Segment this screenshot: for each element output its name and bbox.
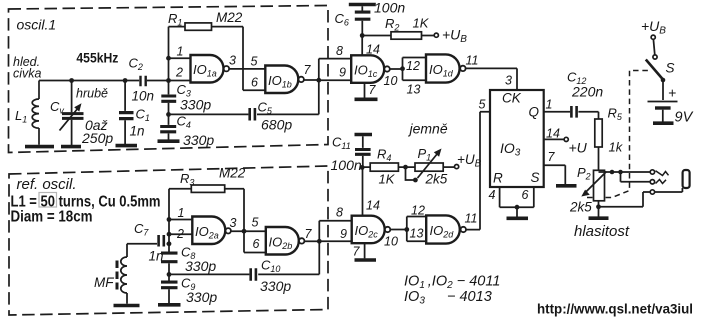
pin 5 label [251, 55, 258, 69]
pin 4 label [489, 188, 496, 202]
wire pin7 IO2c [364, 243, 366, 258]
svg-text:R3: R3 [180, 171, 194, 188]
svg-text:2: 2 [176, 227, 184, 241]
wire switch to battery [662, 80, 664, 100]
pin 10 label osc2 [384, 235, 398, 249]
wire pin14 IO3 [544, 138, 564, 140]
label L1 [15, 108, 27, 125]
terminal +UB osc2 [455, 165, 459, 169]
svg-text:+: + [668, 85, 676, 101]
label 1n C7 [149, 249, 164, 264]
svg-text:680p: 680p [261, 117, 292, 133]
svg-text:100n: 100n [331, 157, 362, 173]
svg-text:1K: 1K [413, 16, 430, 31]
label P2 [577, 165, 591, 182]
label C4 [177, 114, 191, 131]
resistor R3 [169, 185, 244, 253]
svg-text:1: 1 [546, 98, 553, 112]
jack contact 2 spring [656, 180, 667, 184]
svg-text:330p: 330p [260, 278, 291, 294]
ground under battery [653, 121, 674, 125]
label hled. civka [13, 55, 42, 81]
label IO2b [269, 235, 293, 252]
label oscil.1 [17, 17, 57, 33]
resistor R2 [362, 32, 434, 39]
label IO2d [430, 223, 455, 240]
pin 7 label IO1c [369, 83, 377, 97]
pin 10 label [384, 74, 398, 88]
label 330p C4 [183, 132, 214, 148]
svg-text:100n: 100n [374, 0, 405, 16]
label R3 [180, 171, 194, 188]
label C12 [567, 70, 586, 87]
resistor R4 [362, 163, 415, 171]
label hrube [76, 87, 108, 101]
node dot pin1 osc2 [167, 217, 172, 222]
capacitor C2 [141, 76, 146, 87]
svg-text:+UB: +UB [457, 152, 482, 170]
svg-text:13: 13 [407, 83, 421, 97]
svg-text:3: 3 [230, 216, 237, 230]
svg-text:R: R [493, 171, 503, 186]
P2 arrowhead [581, 190, 590, 197]
pin 8 label [336, 44, 343, 58]
label +UB osc2 [457, 152, 482, 170]
svg-text:+U: +U [569, 140, 588, 156]
label C3 [177, 82, 191, 99]
pin 8 label osc2 [336, 206, 343, 220]
wire Q out [544, 112, 599, 119]
svg-text:R1: R1 [168, 11, 182, 28]
label C6 [335, 11, 349, 28]
label +UB battery [641, 18, 666, 37]
label P1 [418, 146, 432, 163]
node dot jack branch 1 [610, 170, 615, 175]
pin 12 label osc2 [411, 204, 425, 218]
pin 2 label osc2 [176, 227, 184, 241]
label S [531, 170, 540, 185]
svg-text:6: 6 [522, 188, 529, 202]
label 680p [261, 117, 292, 133]
label IO1d [429, 62, 454, 79]
svg-text:11: 11 [465, 212, 478, 226]
terminal +UB osc1 [434, 33, 438, 37]
svg-text:P1: P1 [418, 146, 432, 163]
pin 14 label IO2c [366, 199, 380, 213]
label M22 [216, 10, 243, 25]
svg-text:2: 2 [175, 66, 183, 80]
label IO3 4013 [404, 289, 492, 307]
jack plug body [683, 170, 690, 188]
label 330p C3 [180, 97, 211, 113]
svg-text:M22: M22 [216, 10, 243, 25]
node dot R3 drop [242, 229, 247, 234]
svg-text:8: 8 [336, 44, 343, 58]
svg-text:14: 14 [366, 199, 380, 213]
svg-text:S: S [531, 170, 540, 185]
label R1 [168, 11, 182, 28]
label M22 R3 [219, 166, 246, 181]
wire pin7 IO3 [544, 165, 566, 184]
label C11 [332, 135, 351, 152]
capacitor C11 [355, 136, 371, 167]
label 1K R4 [379, 172, 396, 187]
P1 arrowhead [434, 149, 442, 157]
nand gate IO2a [192, 217, 231, 245]
label CK [502, 91, 522, 106]
jack contact 3 [650, 190, 654, 194]
svg-text:+UB: +UB [641, 18, 666, 37]
ground pin7 IO3 [556, 184, 577, 188]
pin 11 label [466, 54, 479, 68]
node dot C7 junction [167, 241, 172, 246]
label R2 [385, 16, 399, 33]
resistor R1 [169, 23, 244, 90]
svg-text:10n: 10n [132, 89, 155, 104]
svg-text:14: 14 [366, 43, 380, 57]
pin 7 label IO1b [304, 63, 312, 77]
nand gate IO1c [351, 55, 390, 83]
label 2k5 P1 [425, 172, 448, 187]
svg-text:Diam = 18cm: Diam = 18cm [11, 208, 93, 225]
svg-text:6: 6 [253, 237, 260, 251]
wire IO2b out [304, 240, 319, 242]
svg-text:10: 10 [384, 74, 398, 88]
node dot IO1d input [400, 66, 405, 71]
svg-text:12: 12 [406, 59, 420, 73]
svg-text:Cv: Cv [50, 99, 64, 116]
label IO2a [195, 224, 219, 241]
svg-text:12: 12 [411, 204, 425, 218]
label IO1a [193, 62, 217, 79]
ground bar above C11 [355, 133, 373, 137]
wire osc2 main node [127, 243, 169, 245]
svg-text:1K: 1K [379, 172, 396, 187]
label R5 [608, 106, 623, 123]
svg-text:7: 7 [548, 150, 556, 164]
pin 14 label IO1c [366, 43, 380, 57]
pin 1 label [546, 98, 553, 112]
pin 2 label [175, 66, 183, 80]
inductor L1 [32, 81, 39, 145]
wire pins 4 and 6 join [500, 187, 534, 217]
ground under C4 [158, 139, 180, 143]
pin 7 label IO3 [548, 150, 556, 164]
wire pin6 tie IO1b [243, 89, 265, 91]
label R4 [377, 147, 391, 164]
wire pin14 IO2c to supply [362, 167, 364, 215]
wire pin2 stub [169, 80, 191, 82]
jack contact 2 [650, 180, 654, 184]
label ref oscil [17, 176, 77, 193]
wire tied inputs 8 9 of IO2c [319, 221, 351, 242]
potentiometer P2 [586, 170, 607, 201]
wire IO1b out [304, 79, 319, 81]
pin 12 label [406, 59, 420, 73]
capacitor C4 [160, 127, 176, 132]
nand gate IO2d [426, 215, 466, 243]
pin 6 label [522, 188, 529, 202]
wire main node osc1 [39, 80, 169, 82]
label Diam spec [11, 208, 93, 225]
label Cv [50, 99, 64, 116]
wire pin7 IO1c [364, 83, 366, 98]
pin 5 label IO3 [479, 98, 486, 112]
pin 6 label [251, 76, 258, 90]
capacitor C8 [161, 253, 178, 262]
node dot switch bottom [661, 78, 666, 83]
wire pin6 tie IO2b [244, 252, 266, 254]
ground bar above C6 [349, 3, 376, 7]
label 1n [130, 124, 145, 139]
label 330p C8 [185, 258, 216, 274]
resistor R5 [595, 119, 602, 147]
ground IO2c [355, 258, 377, 262]
svg-text:C5: C5 [258, 100, 273, 117]
svg-text:jemně: jemně [408, 121, 448, 137]
svg-text:13: 13 [410, 227, 424, 241]
svg-text:C1: C1 [136, 107, 150, 124]
label IO3 [500, 140, 521, 159]
nand gate IO1a [191, 55, 230, 83]
svg-text:oscil.1: oscil.1 [17, 17, 57, 33]
label hlasitost [574, 223, 630, 240]
capacitor C5 [250, 108, 255, 121]
ref oscil dashed enclosure [9, 166, 328, 315]
svg-text:7: 7 [353, 245, 361, 259]
svg-text:hrubě: hrubě [76, 87, 108, 101]
node dot wiper [413, 178, 418, 183]
svg-text:+UB: +UB [442, 27, 467, 46]
label 0 az 250p [81, 117, 113, 146]
label L1 spec [11, 193, 161, 210]
svg-text:1: 1 [177, 45, 184, 59]
label C7 [134, 221, 149, 238]
pin 13 label [407, 83, 421, 97]
node dot pin2 osc1 [166, 78, 171, 83]
ground under L1 [25, 145, 54, 149]
label 2k5 P2 [569, 200, 592, 215]
svg-text:10: 10 [384, 235, 398, 249]
pin 14 label IO3 [546, 127, 560, 141]
wire R5 to P2 [598, 147, 600, 170]
label 1K R2 [413, 16, 430, 31]
node dot Cv tap [69, 78, 74, 83]
svg-text:civka: civka [13, 67, 42, 81]
nand gate IO1b [265, 66, 304, 94]
ground IO1c [355, 98, 378, 102]
svg-text:5: 5 [479, 98, 486, 112]
node dot P2 bottom [596, 204, 601, 209]
svg-text:330p: 330p [180, 97, 211, 113]
nand gate IO2b [266, 227, 305, 255]
svg-text:7: 7 [369, 83, 377, 97]
MF core bar [116, 261, 119, 290]
svg-text:MF: MF [94, 275, 114, 290]
label C10 [261, 258, 280, 275]
jack contact 1 [650, 170, 654, 174]
node dot C8-C9 junction [167, 272, 172, 277]
svg-text:9: 9 [339, 66, 346, 80]
svg-text:330p: 330p [183, 132, 214, 148]
label Q [529, 105, 540, 120]
wire IO2c out to IO2d [390, 229, 407, 231]
wire contact3 to P2 bottom [599, 192, 651, 207]
pin 3 label [229, 54, 236, 68]
svg-text:250p: 250p [81, 130, 113, 146]
oscil.1 dashed enclosure [9, 6, 329, 153]
label C8 [181, 245, 195, 262]
wire P2 bottom [598, 201, 600, 217]
node dot IO1b out [316, 78, 321, 83]
ground RS [507, 217, 529, 221]
svg-text:455kHz: 455kHz [76, 50, 118, 65]
pin 7 label IO2b [305, 227, 313, 241]
label url [537, 301, 693, 317]
label IO1c [354, 63, 378, 80]
svg-text:Q: Q [529, 105, 540, 120]
capacitor C1 [119, 81, 134, 146]
svg-text:C7: C7 [134, 221, 149, 238]
switch S lever [646, 60, 663, 80]
label 100n C6 [374, 0, 405, 16]
dashed mechanical link P2 to S [587, 71, 649, 198]
svg-text:L1: L1 [15, 108, 27, 125]
label battery plus [668, 85, 676, 101]
wire branch to middle contact [621, 172, 651, 182]
pin 9 label osc2 [340, 227, 347, 241]
label IO equivalents 4011 [404, 274, 500, 292]
switch S terminal [653, 55, 657, 59]
svg-text:M22: M22 [219, 166, 246, 181]
node dot pin1 osc1 [166, 56, 171, 61]
pin 3 label osc2 [230, 216, 237, 230]
svg-text:CK: CK [502, 91, 522, 106]
pin 7 label IO2c [353, 245, 361, 259]
wire IO1c out to IO1d [390, 68, 403, 70]
svg-text:C10: C10 [261, 258, 280, 275]
svg-text:P2: P2 [577, 165, 591, 182]
capacitor C10 [251, 268, 256, 281]
Cv arrowhead [74, 103, 81, 111]
wire C8C9 junction to C10 [169, 241, 319, 274]
node dot IO2b out [317, 239, 322, 244]
label IO2c [355, 223, 379, 240]
svg-text:8: 8 [336, 206, 343, 220]
pin 1 label osc2 [178, 206, 185, 220]
label 9V [675, 110, 694, 126]
svg-text:2k5: 2k5 [569, 200, 592, 215]
svg-text:C4: C4 [177, 114, 191, 131]
svg-text:330p: 330p [186, 289, 217, 305]
label 220n [571, 84, 603, 100]
svg-text:R5: R5 [608, 106, 623, 123]
svg-text:6: 6 [251, 76, 258, 90]
label 455kHz [76, 50, 118, 65]
wire P1 wiper [406, 167, 416, 180]
svg-text:C2: C2 [129, 56, 143, 73]
ground under C9 [158, 303, 181, 307]
svg-text:11: 11 [466, 54, 479, 68]
node dot IO2d input [404, 227, 409, 232]
wire contact3 to plug [655, 188, 683, 192]
ground under Cv [61, 145, 81, 149]
wire IO1d out to CK [466, 68, 517, 90]
label S [666, 61, 675, 76]
node dot jack branch 2 [618, 170, 623, 175]
svg-text:9: 9 [340, 227, 347, 241]
label C1 [136, 107, 150, 124]
wire P2 top to jack tip [599, 171, 651, 173]
label C9 [181, 276, 195, 293]
capacitor C7 [159, 235, 164, 247]
svg-text:S: S [666, 61, 675, 76]
capacitor C6 [355, 6, 371, 35]
pin 9 label [339, 66, 346, 80]
wire osc2 input vertical [168, 189, 170, 304]
wire IO1a out to IO1b [229, 68, 265, 70]
nand gate IO2c [352, 216, 391, 244]
node dot pin2 osc2 [167, 232, 172, 237]
wire pin2 stub osc2 [169, 233, 192, 235]
ground under C1 [116, 144, 138, 148]
label +UB osc1 [442, 27, 467, 46]
wire pin1 stub osc2 [169, 219, 192, 221]
label 330p C9 [186, 289, 217, 305]
svg-text:4: 4 [489, 188, 496, 202]
nand gate IO1d [426, 54, 466, 82]
jack contact 1 spring [656, 171, 669, 176]
node dot C3-C4 junction [166, 112, 171, 117]
highlight box around 50 [39, 193, 57, 208]
inductor MF coil [121, 257, 127, 293]
label 10n [132, 89, 155, 104]
label 1k R5 [609, 140, 624, 155]
terminal +U [564, 137, 568, 141]
svg-text:C6: C6 [335, 11, 349, 28]
terminal +UB battery [651, 35, 655, 39]
potentiometer P1 [415, 154, 454, 179]
label 100n C11 [331, 157, 362, 173]
wire IO2a out [231, 230, 266, 232]
label R [493, 171, 503, 186]
pin 5 label osc2 [252, 216, 259, 230]
pin 1 label [177, 45, 184, 59]
svg-text:1k: 1k [609, 140, 624, 155]
svg-text:IO3− 4013: IO3− 4013 [404, 289, 492, 307]
svg-text:ref. oscil.: ref. oscil. [17, 176, 77, 193]
label jemne [408, 121, 448, 137]
capacitor C12 [571, 106, 576, 118]
label MF [94, 275, 114, 290]
wire pin1 stub [169, 57, 191, 59]
svg-text:R2: R2 [385, 16, 399, 33]
svg-text:R4: R4 [377, 147, 391, 164]
label +U [569, 140, 588, 156]
label IO1b [268, 73, 292, 90]
wire osc1 input vertical [168, 27, 170, 141]
wire tied inputs 12 13 of IO1d [403, 58, 427, 81]
svg-text:2k5: 2k5 [425, 172, 448, 187]
pin 13 label osc2 [410, 227, 424, 241]
node dot RS junction [515, 205, 520, 210]
svg-text:hlasitost: hlasitost [574, 223, 630, 240]
battery 9V [648, 102, 678, 122]
svg-text:1: 1 [178, 206, 185, 220]
capacitor C9 [161, 282, 178, 288]
ground under P2 [589, 216, 609, 220]
node dot C11 junction [360, 165, 365, 170]
